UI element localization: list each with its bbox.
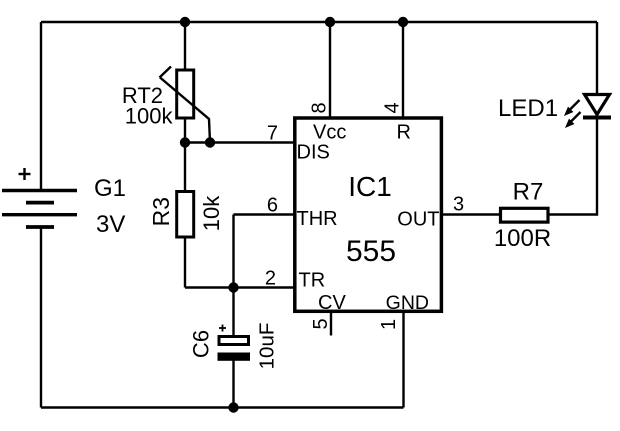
- svg-text:100k: 100k: [125, 104, 174, 129]
- LED LED1 cathode bar: [583, 116, 611, 120]
- junction node DIS wire / wiper: [205, 137, 215, 147]
- wire pin7 DIS: [185, 141, 294, 143]
- junction node bottom rail / C6: [228, 402, 238, 412]
- C6 + polarity mark: [219, 325, 226, 332]
- svg-text:3V: 3V: [96, 211, 125, 238]
- svg-text:100R: 100R: [494, 225, 551, 252]
- wire C6 bottom stem: [232, 361, 234, 408]
- svg-text:10uF: 10uF: [256, 323, 279, 370]
- battery + polarity mark: [19, 168, 31, 180]
- svg-text:OUT: OUT: [397, 209, 439, 231]
- svg-text:5: 5: [310, 318, 332, 329]
- wire left rail bottom (battery - to bottom rail): [40, 227, 42, 408]
- svg-text:6: 6: [267, 195, 278, 217]
- junction node DIS wire / RT2: [180, 137, 190, 147]
- svg-text:R3: R3: [148, 197, 174, 226]
- junction node TR wire / C6: [228, 282, 238, 292]
- svg-text:R7: R7: [513, 179, 544, 206]
- wire pin3 OUT: [442, 213, 501, 215]
- svg-text:7: 7: [267, 123, 278, 145]
- svg-text:1: 1: [378, 319, 400, 330]
- wire C6 top stem: [232, 288, 234, 336]
- wire pin5 CV stub: [330, 312, 332, 336]
- junction node top rail / RT2: [180, 17, 190, 27]
- svg-text:Vcc: Vcc: [313, 122, 346, 144]
- junction node top rail / pin4: [398, 17, 408, 27]
- wire pin4 R: [402, 22, 404, 118]
- LED light arrow 2: [565, 112, 581, 128]
- battery G1 plates: [2, 191, 77, 228]
- svg-text:IC1: IC1: [348, 171, 392, 202]
- capacitor C6 positive plate: [219, 337, 249, 345]
- wire RT2 bottom stem: [184, 119, 186, 143]
- svg-text:R: R: [397, 122, 411, 144]
- wire pin6 THR: [234, 213, 295, 215]
- svg-text:G1: G1: [94, 175, 126, 202]
- rheostat RT2 body: [177, 70, 194, 118]
- svg-text:555: 555: [346, 235, 396, 268]
- wire THR vertical: [232, 215, 234, 288]
- wire R3 bottom stem: [184, 239, 186, 288]
- wire R7 to LED corner: [550, 119, 598, 215]
- RT2 wiper arrow: [160, 67, 211, 143]
- resistor R3 body: [177, 192, 194, 238]
- svg-text:4: 4: [382, 102, 404, 113]
- svg-text:DIS: DIS: [297, 142, 330, 164]
- svg-text:10k: 10k: [199, 195, 224, 231]
- junction node top rail / pin8: [325, 17, 335, 27]
- svg-text:TR: TR: [299, 270, 326, 292]
- capacitor C6 negative plate: [218, 353, 251, 361]
- wire pin1 GND: [402, 312, 404, 408]
- svg-text:2: 2: [265, 268, 276, 290]
- svg-text:8: 8: [309, 102, 331, 113]
- svg-text:CV: CV: [318, 292, 346, 314]
- wire RT2 top stem: [184, 22, 186, 70]
- wire bottom rail ground: [41, 406, 404, 408]
- wire R3 top stem: [184, 143, 186, 191]
- resistor R7 body: [501, 208, 549, 222]
- svg-text:LED1: LED1: [498, 95, 558, 122]
- wire pin2 TR: [185, 286, 294, 288]
- wire LED top stem: [596, 22, 598, 95]
- LED LED1 triangle: [585, 95, 610, 115]
- wire top rail Vcc: [41, 21, 597, 23]
- wire pin8 Vcc: [329, 22, 331, 118]
- svg-text:3: 3: [453, 194, 464, 216]
- svg-text:C6: C6: [189, 330, 214, 358]
- wire left rail top (battery + to top rail): [40, 22, 42, 190]
- svg-text:GND: GND: [386, 292, 429, 314]
- LED light arrow 1: [564, 100, 580, 116]
- op-amp/timer IC1 555 box: [295, 118, 442, 311]
- svg-text:THR: THR: [297, 208, 338, 230]
